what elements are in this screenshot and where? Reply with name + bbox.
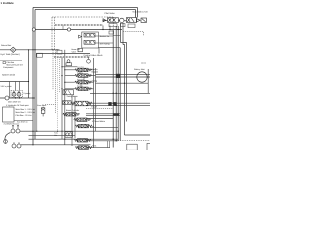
svg-text:Xxxx Xxxx: Xxxx Xxxx (37, 104, 46, 107)
wire pump out 2 (21, 144, 33, 146)
comp left of group (79, 35, 82, 38)
frame inner top wire (35, 9, 136, 11)
wire main line y98 (0, 97, 35, 99)
svg-text:xxx: xxx (92, 126, 95, 128)
valve row 10 (75, 146, 92, 149)
node blob 2 (113, 113, 119, 116)
tank box corner (147, 143, 151, 150)
pilot valve assembly (103, 18, 147, 23)
pump P5 (12, 144, 16, 148)
valve row 3 (75, 81, 92, 84)
svg-text:Main relief set: Main relief set (8, 100, 21, 103)
circle on bus line (67, 28, 70, 31)
svg-text:Pilot Valve: Pilot Valve (105, 12, 116, 15)
svg-text:Swing: Swing (92, 79, 97, 82)
dashed pilot box left (52, 17, 55, 50)
pump stems (14, 142, 19, 144)
svg-text:Control Valve Block: Control Valve Block (84, 54, 104, 57)
pump P1 (12, 91, 16, 96)
wire bus y144.8 (33, 144, 91, 146)
wire pump top line (0, 81, 29, 83)
svg-text:Rotary Joint: Rotary Joint (134, 68, 145, 71)
wire bus y135.6 (29, 135, 76, 137)
wire inter-row links (80, 72, 84, 88)
small box left lower (78, 48, 82, 51)
box valve in frame (63, 90, 74, 95)
pilot valve sub box B (128, 24, 135, 28)
valve row 4 (75, 87, 92, 90)
svg-text:Component: Component (3, 66, 14, 69)
main block left edge (36, 54, 38, 132)
pump group bottom arrows (12, 125, 19, 129)
svg-text:Valve: Valve (72, 50, 77, 53)
wire y118.5 (86, 118, 113, 120)
accumulator circle (87, 59, 91, 63)
svg-text:Pilot flow - 20 L/m: Pilot flow - 20 L/m (16, 114, 32, 117)
control group box (82, 32, 99, 48)
svg-text:Gas Tank Lever: Gas Tank Lever (133, 11, 149, 14)
wire dashed top right (123, 32, 144, 36)
stipple manifold line 2 (54, 56, 90, 58)
wire bus y131.2 (33, 130, 118, 132)
svg-text:X pump: X pump (23, 92, 31, 95)
wire pilot lines down right (121, 23, 124, 45)
svg-text:X Travel Motor: X Travel Motor (92, 120, 105, 123)
pilot relief valve (41, 108, 45, 117)
aux valve left (63, 101, 72, 105)
valve row 7 (74, 118, 91, 121)
rotary box with circles (65, 132, 73, 138)
wire dashed box right edge (112, 17, 114, 30)
circle on left border (32, 28, 35, 31)
relief valve top (67, 60, 70, 63)
junction box small (57, 50, 62, 54)
wire bus y29.5 (33, 29, 122, 31)
valve row 6 (63, 113, 80, 116)
wire stipple drop (62, 25, 64, 30)
frame right drop wire (136, 8, 138, 18)
svg-text:Tank: Tank (92, 144, 96, 147)
pilot valve sub box A (109, 24, 117, 27)
wire bottom left stub (59, 138, 75, 140)
frame inner left wire (34, 10, 36, 140)
wire bus y139.2 (29, 138, 119, 140)
wire engine link (14, 120, 33, 122)
svg-text:xxx xx: xxx xx (141, 63, 146, 65)
frame outer left wire (32, 8, 34, 145)
wire group links (95, 36, 120, 54)
svg-text:1 Institute: 1 Institute (1, 1, 15, 5)
wire legend top (0, 59, 22, 61)
valve row 2 (75, 74, 92, 77)
rotary joint circle (137, 72, 147, 82)
engine box (3, 107, 15, 122)
small box on manifold (36, 53, 42, 57)
filter diamond (10, 47, 16, 52)
pilot valve sub box mid (121, 24, 126, 27)
svg-text:Xxx XXX xx: Xxx XXX xx (17, 120, 27, 123)
svg-text:Bypass: Bypass (92, 71, 99, 74)
svg-text:XXX x press: XXX x press (1, 85, 12, 88)
dashed pilot bundle (52, 50, 54, 90)
wire dashed y140.6 (113, 140, 150, 142)
wire y102.8 (86, 102, 150, 104)
wire right bottom y135 (124, 134, 150, 136)
svg-text:System Drain: System Drain (2, 74, 16, 77)
wire y93.3 (90, 92, 150, 94)
wire dashed link (43, 105, 55, 108)
svg-text:Hyd. Tank (Suction): Hyd. Tank (Suction) (1, 53, 20, 56)
big valve row 5 (71, 101, 92, 106)
wire pump drops (10, 82, 20, 98)
wire stub verticals bottom (108, 141, 110, 148)
svg-text:Travel: Travel (91, 105, 97, 108)
wire right trunk verticals (112, 30, 114, 148)
small box under bus (109, 31, 114, 34)
wire y66.8 stub (62, 66, 77, 68)
wire right edge (147, 69, 149, 93)
svg-text:Main flow 2 - 120 L/m: Main flow 2 - 120 L/m (16, 111, 35, 114)
wire left return vertical (28, 50, 30, 98)
wire corner to down pipes (121, 43, 127, 136)
junction dots (15, 29, 125, 145)
node blob (116, 74, 121, 78)
svg-text:Main flow 1 - 120 L/m: Main flow 1 - 120 L/m (16, 108, 35, 111)
wire center verticals (61, 57, 63, 139)
wire row stubs left (65, 70, 75, 89)
wire rotary joint lines (96, 75, 151, 77)
frame outer top wire (33, 7, 138, 9)
svg-text:Return filter: Return filter (1, 44, 12, 47)
group valve A (84, 33, 95, 37)
pump P2 (17, 91, 21, 96)
svg-text:Center: Center (92, 68, 98, 71)
wire y83 (96, 82, 149, 84)
wire right of bank verticals (93, 58, 95, 148)
wire drain arc (5, 133, 11, 141)
legend block (3, 61, 24, 69)
pilot pump (4, 140, 8, 144)
wire pump out (20, 130, 33, 132)
tank box right (127, 144, 137, 150)
wire dashed y108.4 (86, 107, 113, 109)
pump P4 (16, 129, 20, 133)
svg-text:Boom Cylinder: Boom Cylinder (66, 109, 79, 112)
gauge circle (5, 96, 9, 100)
group valve B (84, 40, 95, 44)
pump P6 (17, 144, 21, 148)
dashed pump box (11, 91, 23, 98)
wire y104.8 (86, 104, 150, 106)
wire manifold top y53.5 (37, 53, 90, 55)
valve row 9 (74, 139, 91, 142)
wire y113.8 (86, 113, 120, 115)
node blobs travel lines (108, 102, 111, 106)
wire stubs under pilot valve (103, 26, 110, 30)
wire y147.6 (86, 147, 110, 149)
dashed pilot box top (52, 16, 113, 18)
wire y127.6 (90, 127, 118, 129)
svg-text:Bucket Sw: Bucket Sw (100, 35, 110, 38)
pump P3 (11, 129, 15, 133)
wire bus y140.8 (86, 140, 118, 142)
wire y115.4 (86, 114, 120, 116)
valve row 1 (75, 68, 92, 71)
wire row stubs right (89, 70, 96, 89)
stipple manifold line top (55, 24, 103, 26)
valve row 8 (75, 124, 92, 127)
wire suction line y49.8 (0, 49, 60, 51)
